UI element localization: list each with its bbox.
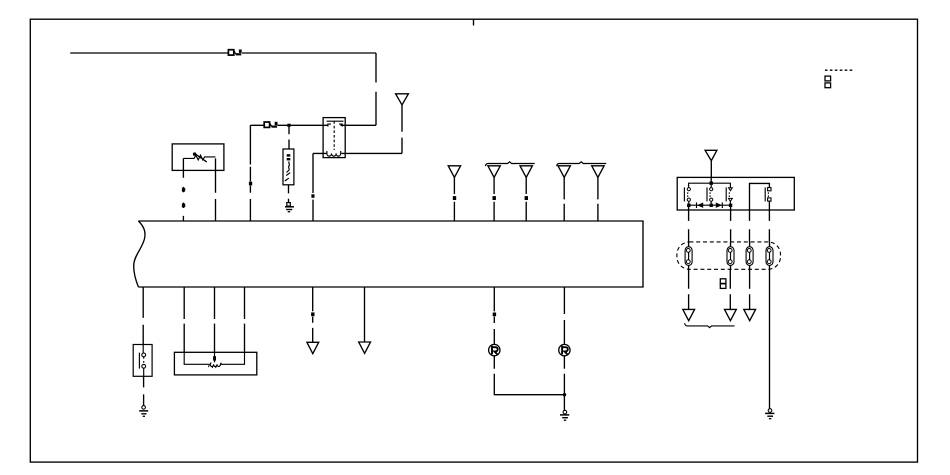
triangle connector right of relay	[396, 94, 409, 105]
tick mark on top border	[473, 19, 475, 25]
triangle conn D	[558, 166, 570, 178]
relay	[323, 118, 345, 158]
lower-right triangle 1	[683, 309, 695, 320]
bulb 2 wire to ground	[563, 356, 565, 411]
sensor left leg to ECU	[182, 158, 184, 221]
switch pack box	[677, 177, 794, 210]
door switch box	[133, 345, 152, 377]
sensor right leg to ECU	[215, 158, 217, 221]
ECU leg to lower triangle 2	[364, 287, 366, 342]
wire relay coil left leg down to ECU	[313, 153, 323, 221]
bulb 1	[489, 344, 500, 355]
legend dashed line	[825, 69, 853, 71]
legend connector squares	[825, 76, 831, 88]
diode D1 (points left)	[696, 202, 698, 208]
legend squares below strip	[720, 279, 726, 289]
ECU legs to rheostat	[183, 287, 185, 352]
wire W2 left leg down to ECU	[249, 125, 251, 221]
ECU bottom leg to door switch	[142, 287, 144, 345]
diode rail	[689, 201, 731, 205]
wire from junction down to circuit breaker	[288, 127, 290, 149]
junction node on W2	[287, 124, 290, 127]
switch S2	[707, 187, 713, 201]
ECU leg to lower triangle 1	[312, 287, 314, 342]
bracket over D E	[557, 162, 607, 166]
triangle conn A	[448, 166, 460, 178]
ground (bulbs)	[560, 410, 569, 420]
switch S3	[726, 187, 732, 201]
switch S4 with feed loop	[750, 183, 772, 210]
ECU leg to bulb 1	[493, 287, 495, 344]
ECU main box	[134, 221, 643, 287]
strip leg 3 to triangle	[749, 269, 751, 309]
bulb 2	[559, 344, 570, 355]
wire breaker to ground	[288, 185, 290, 203]
light sensor box	[172, 144, 224, 171]
bracket under lower-right triangles	[685, 323, 735, 327]
ground (breaker)	[285, 203, 294, 212]
rheostat box	[174, 352, 256, 375]
bracket over B C	[485, 162, 534, 166]
triangle conn to switch pack	[705, 150, 717, 160]
feed node inside switch pack	[710, 177, 712, 183]
circuit breaker	[283, 149, 294, 185]
pass-through connector strip	[677, 242, 781, 269]
strip leg 1 to triangle	[688, 269, 690, 309]
strip leg 4 to ground	[769, 269, 771, 409]
junction node at ground bus	[563, 393, 566, 396]
connector pair symbol on W1	[228, 50, 241, 56]
wire triangle to relay coil	[345, 105, 402, 153]
triangle conn B	[488, 166, 500, 178]
switch pack bottom legs	[688, 207, 690, 242]
wire switch to ground	[143, 376, 145, 405]
connector pin 3	[746, 242, 753, 269]
triangle conn C	[520, 166, 532, 178]
lower triangle conn 2	[359, 342, 371, 353]
connector pin 2	[727, 242, 734, 269]
switch S1	[684, 187, 690, 201]
ground (door switch)	[139, 406, 148, 417]
lower-right triangle 2	[725, 309, 737, 320]
wire W2 horizontal to relay	[250, 124, 323, 126]
connector pin 4	[766, 242, 773, 269]
connector pin 1	[685, 242, 692, 269]
lower-right triangle 3	[744, 309, 756, 320]
lower triangle conn 1	[307, 342, 319, 353]
ECU leg to bulb 2	[563, 287, 565, 344]
wire W1 horizontal top feed	[70, 52, 376, 54]
strip leg 2 to triangle	[729, 269, 731, 309]
wire vertical from W1 down to relay	[345, 53, 376, 125]
ground (switch pack)	[765, 409, 774, 419]
bulb 1 wire down and across	[494, 356, 564, 395]
connector pair symbol on W2	[264, 122, 277, 128]
diode D2 (points right)	[721, 202, 723, 208]
triangle conn E	[592, 166, 604, 178]
feed rail	[689, 183, 731, 187]
